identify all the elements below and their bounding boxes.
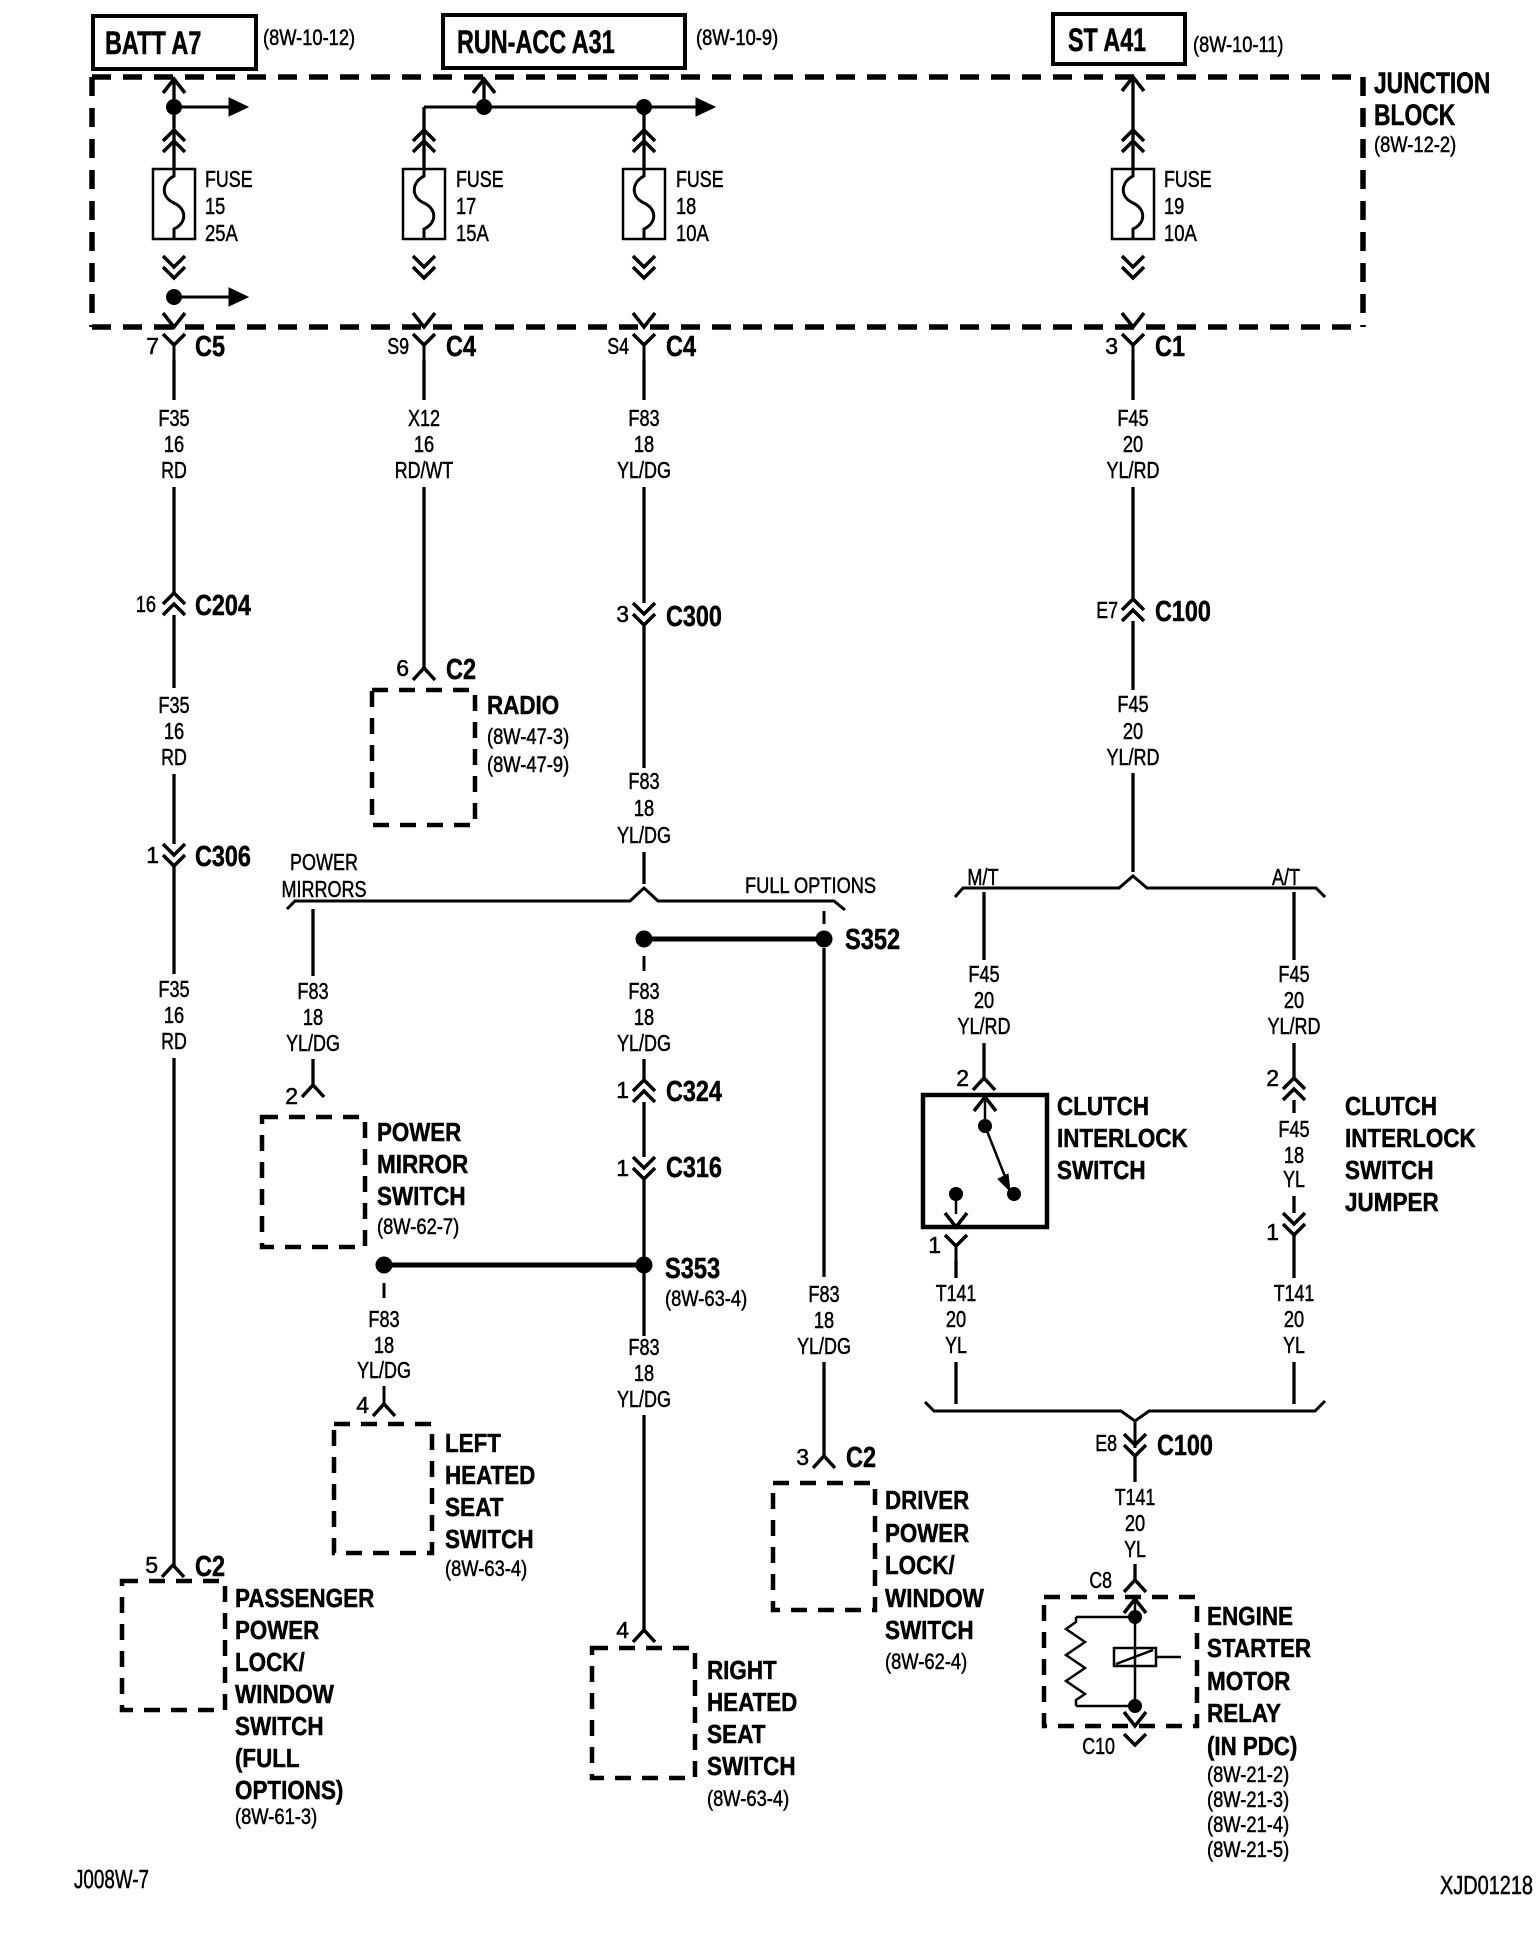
- svg-text:20: 20: [974, 987, 994, 1013]
- svg-text:F83: F83: [808, 1281, 839, 1307]
- svg-text:2: 2: [1266, 1065, 1279, 1091]
- clutch interlock switch jumper label: [1345, 1091, 1476, 1217]
- wire F83 segment 4: [642, 852, 645, 884]
- power mirror switch label: [377, 1117, 468, 1239]
- connector C204 symbol: [163, 593, 185, 615]
- connector C4-S4 symbol: [633, 334, 655, 360]
- svg-text:MIRRORS: MIRRORS: [282, 876, 367, 902]
- wire crossing chevrons below fuse 15: [163, 256, 185, 278]
- svg-text:SWITCH: SWITCH: [235, 1711, 324, 1741]
- svg-text:F45: F45: [1278, 1116, 1309, 1142]
- svg-text:SWITCH: SWITCH: [1345, 1155, 1434, 1185]
- svg-text:20: 20: [1284, 987, 1304, 1013]
- left heated seat switch label: [445, 1428, 535, 1581]
- net label M/T: [967, 864, 998, 890]
- wire label F45 20 YL/RD (A/T): [1268, 961, 1321, 1039]
- svg-text:E8: E8: [1095, 1430, 1117, 1456]
- wire exit arrow col4 at boundary: [1122, 313, 1144, 327]
- svg-text:5: 5: [145, 1552, 158, 1578]
- junction dot col1 lower: [166, 289, 182, 305]
- wire T141 M/T segment 2: [954, 1362, 957, 1404]
- wire label F45 18 YL (jumper): [1278, 1116, 1309, 1192]
- wire label T141 20 YL (relay): [1115, 1484, 1156, 1562]
- wire crossing chevrons below fuse 19: [1122, 256, 1144, 278]
- wire F83 driver segment 2: [822, 1362, 825, 1456]
- svg-text:F83: F83: [628, 768, 659, 794]
- splice brace POWER MIRRORS / FULL OPTIONS: [287, 888, 845, 910]
- pin 16 label at C204: [136, 591, 156, 617]
- svg-text:RD: RD: [161, 1028, 187, 1054]
- svg-text:1: 1: [928, 1232, 941, 1258]
- driver power lock/window switch label: [885, 1485, 984, 1674]
- pin 3 label at C1: [1105, 333, 1118, 359]
- svg-text:F83: F83: [297, 978, 328, 1004]
- wire stub to splice S352 (dashed): [823, 911, 826, 924]
- connector C8 symbol: [1124, 1580, 1146, 1592]
- wire F83 segment 3: [642, 625, 645, 768]
- wire F83 center segment: [642, 1059, 645, 1080]
- wire F45 segment 4: [1131, 773, 1134, 872]
- junction block boundary (dashed): [92, 77, 1363, 327]
- wire label T141 20 YL (M/T): [936, 1280, 977, 1358]
- wire F83 segment 1: [642, 360, 645, 400]
- connector clutch interlock pin 2 symbol: [973, 1078, 995, 1090]
- wire left seat lower stub: [383, 1386, 386, 1404]
- svg-text:SEAT: SEAT: [445, 1492, 504, 1522]
- svg-text:16: 16: [414, 431, 434, 457]
- svg-text:MIRROR: MIRROR: [377, 1149, 468, 1179]
- wire branch arrow right lower col1: [182, 288, 248, 306]
- fuse 17 value label: [456, 166, 504, 246]
- pin E7 label: [1096, 597, 1118, 623]
- wire F83 below splice dash: [643, 956, 646, 971]
- svg-text:MOTOR: MOTOR: [1207, 1666, 1291, 1696]
- junction block label: [1374, 67, 1490, 157]
- radio label: [487, 690, 569, 777]
- wire crossing chevrons below fuse 18: [633, 256, 655, 278]
- svg-text:18: 18: [634, 1360, 654, 1386]
- wire jumper stub lower: [1292, 1196, 1295, 1213]
- svg-text:C300: C300: [666, 601, 722, 633]
- splice S353 junction dots and tie: [376, 1257, 653, 1274]
- wire label F83 18 YL/DG (2): [617, 768, 671, 848]
- svg-text:18: 18: [814, 1307, 834, 1333]
- svg-text:10A: 10A: [676, 220, 709, 246]
- power mirror switch (dashed box): [262, 1117, 365, 1247]
- pin 1 label at C306: [146, 842, 159, 868]
- pin S4 label: [607, 333, 629, 359]
- passenger power lock/window switch label: [235, 1583, 374, 1829]
- svg-text:ENGINE: ENGINE: [1207, 1601, 1293, 1631]
- wire F45 M/T segment 2: [982, 1043, 985, 1078]
- svg-text:C1: C1: [1155, 331, 1185, 363]
- wire label F83 18 YL/DG (right seat): [617, 1334, 671, 1412]
- junction dot col1 upper: [166, 99, 182, 115]
- wire F35 16 RD segment 2: [172, 487, 175, 593]
- svg-text:C316: C316: [666, 1152, 722, 1184]
- svg-text:RADIO: RADIO: [487, 690, 559, 720]
- wire F35 16 RD segment 6: [172, 1058, 175, 1565]
- svg-text:17: 17: [456, 193, 476, 219]
- wire label F83 18 YL/DG (mirrors): [286, 978, 340, 1056]
- connector C2 radio label: [446, 654, 476, 686]
- svg-text:DRIVER: DRIVER: [885, 1485, 969, 1515]
- svg-text:19: 19: [1164, 193, 1184, 219]
- connector C4-S9 symbol: [413, 334, 435, 360]
- engine starter motor relay label: [1207, 1601, 1311, 1862]
- svg-text:20: 20: [1125, 1510, 1145, 1536]
- svg-text:20: 20: [1284, 1306, 1304, 1332]
- svg-text:20: 20: [1123, 431, 1143, 457]
- svg-text:YL/RD: YL/RD: [958, 1013, 1011, 1039]
- connector C2 passenger switch symbol: [162, 1565, 184, 1577]
- wire between C324 and C316: [642, 1102, 645, 1157]
- wire F35 16 RD segment 1: [172, 360, 175, 400]
- svg-text:POWER: POWER: [377, 1117, 461, 1147]
- wire label F35 16 RD (1): [158, 405, 189, 483]
- svg-text:15A: 15A: [456, 220, 489, 246]
- svg-text:18: 18: [374, 1332, 394, 1358]
- svg-text:SWITCH: SWITCH: [377, 1181, 466, 1211]
- wire label T141 20 YL (A/T): [1274, 1280, 1315, 1358]
- connector clutch interlock pin 1 symbol: [945, 1235, 967, 1261]
- svg-text:YL/RD: YL/RD: [1107, 457, 1160, 483]
- svg-text:ST A41: ST A41: [1068, 22, 1146, 58]
- svg-text:3: 3: [1105, 333, 1118, 359]
- right heated seat switch label: [707, 1655, 797, 1811]
- wire crossing chevrons above fuse 18: [633, 130, 655, 152]
- svg-text:FUSE: FUSE: [205, 166, 253, 192]
- svg-text:XJD01218: XJD01218: [1440, 1870, 1533, 1900]
- wire exit arrow col3 at boundary: [633, 313, 655, 327]
- svg-text:16: 16: [164, 1002, 184, 1028]
- connector C316 label: [666, 1152, 722, 1184]
- pin 4 label (right heated seat): [616, 1617, 629, 1643]
- reference (8W-10-9): [696, 25, 778, 50]
- connector C1 label: [1155, 331, 1185, 363]
- wire T141 M/T segment 1: [954, 1261, 957, 1278]
- connector C1 symbol: [1122, 334, 1144, 360]
- wire F45 segment 3: [1131, 621, 1134, 690]
- connector C300 label: [666, 601, 722, 633]
- svg-text:YL/DG: YL/DG: [617, 457, 671, 483]
- svg-text:BLOCK: BLOCK: [1374, 99, 1456, 132]
- svg-text:4: 4: [616, 1617, 629, 1643]
- wire F83 segment 2: [642, 487, 645, 603]
- engine starter motor relay internals: [1066, 1599, 1181, 1726]
- svg-text:SWITCH: SWITCH: [1057, 1155, 1146, 1185]
- svg-text:16: 16: [164, 431, 184, 457]
- svg-text:(FULL: (FULL: [235, 1743, 300, 1773]
- wire label F83 18 YL/DG (1): [617, 405, 671, 483]
- pin 1 label (clutch interlock): [928, 1232, 941, 1258]
- svg-text:WINDOW: WINDOW: [235, 1679, 334, 1709]
- pin 5 label: [145, 1552, 158, 1578]
- wire T141 to relay segment 2: [1133, 1564, 1136, 1580]
- wire F83 power mirrors segment 1: [311, 909, 314, 976]
- svg-text:(8W-10-12): (8W-10-12): [263, 25, 355, 50]
- wire F83 power mirrors segment 2: [311, 1059, 314, 1085]
- wire F83 below S353 segment: [642, 1273, 645, 1336]
- svg-text:16: 16: [164, 718, 184, 744]
- wire label X12 16 RD/WT: [395, 405, 454, 483]
- fuse F18: [623, 169, 665, 239]
- connector C324 symbol: [633, 1080, 655, 1102]
- connector power mirror switch pin 2 symbol: [302, 1085, 324, 1097]
- pin 1 label at C316: [616, 1155, 629, 1181]
- svg-text:1: 1: [1266, 1219, 1279, 1245]
- junction dot fuse 18 tap: [636, 99, 652, 115]
- wire label F35 16 RD (3): [158, 976, 189, 1054]
- engine starter motor relay (dashed box): [1044, 1597, 1197, 1726]
- svg-text:1: 1: [616, 1077, 629, 1103]
- svg-text:2: 2: [285, 1083, 298, 1109]
- svg-text:POWER: POWER: [235, 1615, 319, 1645]
- svg-text:(8W-47-9): (8W-47-9): [487, 752, 569, 777]
- wire BATT A7 feed (arrow up into BATT A7): [163, 79, 185, 169]
- svg-text:POWER: POWER: [885, 1518, 969, 1548]
- wire F45 segment 1: [1131, 360, 1134, 400]
- wire F45 M/T segment 1: [982, 892, 985, 960]
- fuse F17: [403, 169, 445, 239]
- wire F45 A/T segment 1: [1292, 892, 1295, 960]
- svg-text:3: 3: [616, 601, 629, 627]
- connector C5 label: [195, 331, 225, 363]
- svg-text:C8: C8: [1089, 1567, 1112, 1593]
- svg-text:20: 20: [946, 1306, 966, 1332]
- wire F35 16 RD segment 4: [172, 774, 175, 844]
- right heated seat switch (dashed box): [592, 1648, 695, 1778]
- connector C306 label: [195, 841, 251, 873]
- svg-text:3: 3: [796, 1444, 809, 1470]
- svg-text:C100: C100: [1157, 1430, 1213, 1462]
- connector C324 label: [666, 1076, 722, 1108]
- svg-text:F45: F45: [1117, 405, 1148, 431]
- clutch interlock switch label: [1057, 1091, 1188, 1185]
- wire F45 segment 2: [1131, 487, 1134, 599]
- svg-text:FUSE: FUSE: [1164, 166, 1212, 192]
- pin 2 label (power mirror switch): [285, 1083, 298, 1109]
- splice S352 junction dots and tie: [636, 931, 833, 948]
- svg-text:RELAY: RELAY: [1207, 1698, 1281, 1728]
- wire label F83 18 YL/DG (center): [617, 978, 671, 1056]
- svg-text:16: 16: [136, 591, 156, 617]
- svg-text:YL/DG: YL/DG: [617, 1386, 671, 1412]
- wire stub below S353-left dot (dashed): [383, 1283, 386, 1298]
- reference (8W-10-11): [1193, 32, 1284, 57]
- svg-text:HEATED: HEATED: [445, 1460, 535, 1490]
- connector left heated seat pin 4 symbol: [373, 1404, 395, 1416]
- svg-text:INTERLOCK: INTERLOCK: [1057, 1123, 1188, 1153]
- sheet number J008W-7: [74, 1864, 149, 1894]
- svg-text:F35: F35: [158, 976, 189, 1002]
- svg-text:6: 6: [396, 655, 409, 681]
- svg-text:SWITCH: SWITCH: [885, 1615, 974, 1645]
- splice S352 label: [845, 924, 900, 956]
- svg-text:YL/RD: YL/RD: [1268, 1013, 1321, 1039]
- wire F35 16 RD segment 5: [172, 866, 175, 974]
- wire RUN-ACC feed (arrow up into RUN-ACC A31): [473, 79, 495, 107]
- svg-text:1: 1: [146, 842, 159, 868]
- svg-text:YL: YL: [1283, 1332, 1305, 1358]
- svg-text:RUN-ACC A31: RUN-ACC A31: [457, 24, 615, 60]
- svg-text:HEATED: HEATED: [707, 1687, 797, 1717]
- wire F35 16 RD segment 3: [172, 615, 175, 688]
- clutch interlock switch (solid box): [923, 1095, 1047, 1227]
- svg-text:C100: C100: [1155, 596, 1211, 628]
- connector C316 symbol: [633, 1157, 655, 1179]
- svg-text:C204: C204: [195, 590, 251, 622]
- wire crossing chevrons above fuse 17: [413, 130, 435, 152]
- wire crossing chevrons above fuse 15: [163, 130, 185, 152]
- svg-text:F35: F35: [158, 692, 189, 718]
- svg-text:POWER: POWER: [290, 849, 358, 875]
- svg-text:F45: F45: [968, 961, 999, 987]
- svg-text:F83: F83: [628, 978, 659, 1004]
- svg-text:(8W-62-4): (8W-62-4): [885, 1649, 967, 1674]
- pin C10 label: [1082, 1733, 1115, 1759]
- wire X12 16 RD/WT segment 1: [422, 360, 425, 400]
- svg-text:T141: T141: [1274, 1280, 1315, 1306]
- wire T141 A/T segment 2: [1292, 1362, 1295, 1404]
- svg-text:WINDOW: WINDOW: [885, 1583, 984, 1613]
- svg-text:FULL OPTIONS: FULL OPTIONS: [745, 873, 876, 898]
- connector C100-E8 symbol: [1124, 1421, 1146, 1456]
- svg-text:RD: RD: [161, 457, 187, 483]
- svg-text:LOCK/: LOCK/: [235, 1647, 305, 1677]
- svg-text:C2: C2: [195, 1551, 225, 1583]
- pin 2 label (jumper): [1266, 1065, 1279, 1091]
- svg-text:LOCK/: LOCK/: [885, 1550, 955, 1580]
- svg-text:F83: F83: [628, 1334, 659, 1360]
- svg-text:S4: S4: [607, 333, 629, 359]
- svg-text:YL/DG: YL/DG: [797, 1333, 851, 1359]
- svg-text:18: 18: [303, 1004, 323, 1030]
- svg-text:T141: T141: [936, 1280, 977, 1306]
- svg-text:T141: T141: [1115, 1484, 1156, 1510]
- wire label F45 20 YL/RD (1): [1107, 405, 1160, 483]
- wire F45 A/T segment 2: [1292, 1043, 1295, 1078]
- svg-text:J008W-7: J008W-7: [74, 1864, 149, 1894]
- svg-text:(8W-63-4): (8W-63-4): [445, 1556, 527, 1581]
- pin C8 label: [1089, 1567, 1112, 1593]
- wire T141 A/T segment 1: [1292, 1235, 1295, 1278]
- svg-text:(8W-21-5): (8W-21-5): [1207, 1837, 1289, 1862]
- wire X12 16 RD/WT segment 2: [422, 487, 425, 668]
- svg-text:M/T: M/T: [967, 864, 998, 890]
- clutch interlock switch internal contacts: [945, 1097, 1021, 1227]
- svg-text:(8W-63-4): (8W-63-4): [707, 1786, 789, 1811]
- svg-text:18: 18: [676, 193, 696, 219]
- net label POWER MIRRORS: [282, 849, 367, 902]
- left heated seat switch (dashed box): [334, 1424, 432, 1553]
- connector C100 label (E7): [1155, 596, 1211, 628]
- svg-text:JUMPER: JUMPER: [1345, 1187, 1439, 1217]
- svg-text:YL: YL: [1283, 1166, 1305, 1192]
- svg-text:S352: S352: [845, 924, 900, 956]
- svg-text:(8W-10-11): (8W-10-11): [1193, 32, 1284, 57]
- svg-text:F35: F35: [158, 405, 189, 431]
- svg-text:SWITCH: SWITCH: [445, 1524, 534, 1554]
- connector right heated seat pin 4 symbol: [633, 1630, 655, 1642]
- svg-text:18: 18: [634, 1004, 654, 1030]
- svg-text:20: 20: [1123, 718, 1143, 744]
- wire label F83 18 YL/DG (driver): [797, 1281, 851, 1359]
- splice S353 label: [665, 1253, 747, 1311]
- wire T141 to relay segment 1: [1133, 1456, 1136, 1482]
- svg-text:25A: 25A: [205, 220, 238, 246]
- svg-text:C2: C2: [446, 654, 476, 686]
- svg-text:(8W-10-9): (8W-10-9): [696, 25, 778, 50]
- connector C100-E7 symbol: [1122, 599, 1144, 621]
- svg-text:(8W-61-3): (8W-61-3): [235, 1804, 317, 1829]
- svg-text:F83: F83: [368, 1306, 399, 1332]
- svg-text:YL/DG: YL/DG: [357, 1357, 411, 1383]
- svg-text:YL: YL: [1124, 1536, 1146, 1562]
- svg-text:C2: C2: [846, 1442, 876, 1474]
- svg-text:JUNCTION: JUNCTION: [1374, 67, 1490, 100]
- wire crossing chevrons below fuse 17: [413, 256, 435, 278]
- svg-text:18: 18: [634, 431, 654, 457]
- wire C316 to S353: [642, 1179, 645, 1257]
- pin 4 label (left heated seat): [356, 1392, 369, 1418]
- svg-text:C4: C4: [446, 331, 476, 363]
- drawing number XJD01218: [1440, 1870, 1533, 1900]
- driver power lock/window switch (dashed box): [773, 1483, 875, 1610]
- svg-text:C306: C306: [195, 841, 251, 873]
- junction block feed box BATT A7: [93, 16, 256, 69]
- fuse 15 value label: [205, 166, 253, 246]
- svg-text:F45: F45: [1117, 691, 1148, 717]
- svg-text:10A: 10A: [1164, 220, 1197, 246]
- svg-text:C4: C4: [666, 331, 696, 363]
- svg-text:1: 1: [616, 1155, 629, 1181]
- svg-text:BATT A7: BATT A7: [105, 25, 201, 61]
- connector C4 label (S9): [446, 331, 476, 363]
- svg-text:(IN PDC): (IN PDC): [1207, 1731, 1297, 1761]
- connector C4 label (S4): [666, 331, 696, 363]
- connector C10 symbol: [1124, 1734, 1146, 1745]
- wire branch arrow right upper col1: [182, 98, 248, 116]
- svg-text:YL/DG: YL/DG: [617, 1030, 671, 1056]
- svg-text:(8W-63-4): (8W-63-4): [665, 1286, 747, 1311]
- svg-text:YL/RD: YL/RD: [1107, 744, 1160, 770]
- wire fuse18 drop: [642, 107, 645, 169]
- svg-text:A/T: A/T: [1272, 864, 1300, 890]
- connector C2 driver label: [846, 1442, 876, 1474]
- pin E8 label: [1095, 1430, 1117, 1456]
- passenger power lock/window switch (dashed box): [122, 1581, 225, 1710]
- svg-text:(8W-21-2): (8W-21-2): [1207, 1762, 1289, 1787]
- svg-text:CLUTCH: CLUTCH: [1057, 1091, 1149, 1121]
- merge brace T141 to C100: [925, 1401, 1325, 1421]
- svg-text:18: 18: [634, 795, 654, 821]
- svg-text:F83: F83: [628, 405, 659, 431]
- net label FULL OPTIONS: [745, 873, 876, 898]
- radio (dashed box): [372, 690, 475, 825]
- pin 7 label: [146, 333, 159, 359]
- svg-text:PASSENGER: PASSENGER: [235, 1583, 374, 1613]
- svg-text:YL/DG: YL/DG: [617, 822, 671, 848]
- pin 6 label: [396, 655, 409, 681]
- svg-text:7: 7: [146, 333, 159, 359]
- connector C300 symbol: [633, 603, 655, 625]
- connector C2 radio symbol: [413, 668, 435, 680]
- junction block feed box ST A41: [1053, 14, 1185, 64]
- svg-text:C10: C10: [1082, 1733, 1115, 1759]
- svg-text:C5: C5: [195, 331, 225, 363]
- wire jumper stub upper: [1292, 1100, 1295, 1113]
